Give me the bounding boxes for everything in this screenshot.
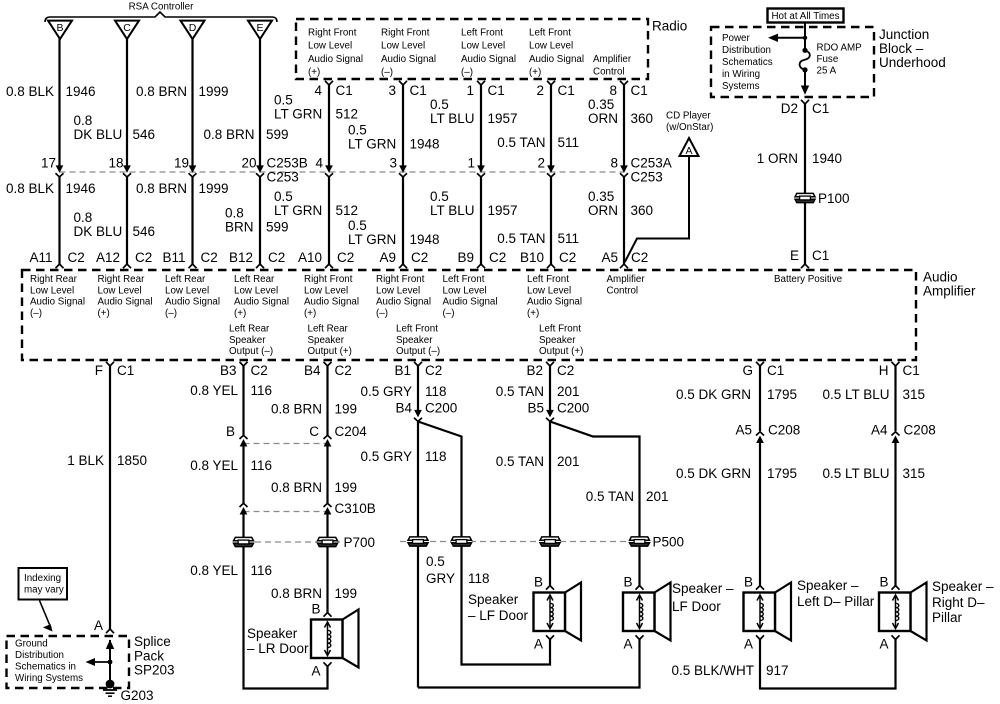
svg-text:(–): (–) xyxy=(376,308,388,319)
grommet P500 c xyxy=(540,537,560,546)
svg-text:– LF Door: – LF Door xyxy=(468,608,529,623)
svg-text:H: H xyxy=(879,363,889,378)
radio pin 8 C1 xyxy=(620,81,628,85)
svg-text:199: 199 xyxy=(335,586,358,601)
pin B2 C2 xyxy=(546,362,554,366)
svg-text:B10: B10 xyxy=(520,250,544,265)
svg-text:Splice: Splice xyxy=(134,634,171,649)
svg-text:(+): (+) xyxy=(527,308,539,319)
grommet P700 right xyxy=(318,537,338,546)
svg-text:C204: C204 xyxy=(335,424,368,439)
svg-text:A: A xyxy=(685,145,692,157)
svg-text:Low Level: Low Level xyxy=(461,41,505,52)
svg-text:118: 118 xyxy=(425,449,447,464)
svg-text:512: 512 xyxy=(336,203,359,218)
pin D2 C1 xyxy=(801,100,809,104)
svg-text:1 BLK: 1 BLK xyxy=(67,453,104,468)
svg-text:D: D xyxy=(189,22,197,34)
pin B4 C2 xyxy=(324,362,332,366)
svg-text:1795: 1795 xyxy=(767,387,797,402)
svg-text:A: A xyxy=(311,663,320,678)
svg-text:B5: B5 xyxy=(527,400,544,415)
svg-text:C200: C200 xyxy=(425,400,457,415)
svg-text:0.5: 0.5 xyxy=(430,97,449,112)
svg-text:118: 118 xyxy=(425,384,447,399)
svg-text:0.8 BLK: 0.8 BLK xyxy=(6,84,54,99)
svg-text:(w/OnStar): (w/OnStar) xyxy=(666,122,713,133)
svg-text:0.35: 0.35 xyxy=(588,189,614,204)
svg-text:511: 511 xyxy=(558,231,580,246)
Hot at All Times box xyxy=(768,9,844,23)
speaker LR Door xyxy=(311,610,359,668)
svg-text:D2: D2 xyxy=(781,101,798,116)
svg-text:1: 1 xyxy=(467,155,475,170)
svg-text:C253B: C253B xyxy=(267,155,308,170)
wire E lower xyxy=(259,177,261,264)
connector C253 pin 18 xyxy=(123,166,131,177)
wire 1 ORN 1940 xyxy=(804,104,806,264)
pin A9 xyxy=(399,264,407,268)
svg-text:Right Front: Right Front xyxy=(376,274,425,285)
fuse RDO AMP 25A xyxy=(802,48,807,53)
svg-text:C2: C2 xyxy=(268,250,285,265)
svg-text:Right D–: Right D– xyxy=(932,595,985,610)
connector C208 pin A5 xyxy=(756,432,764,443)
speaker Left D-Pillar pin A xyxy=(756,635,764,639)
svg-text:LF Door: LF Door xyxy=(672,599,721,614)
svg-text:Junction: Junction xyxy=(879,27,929,42)
svg-text:C: C xyxy=(309,424,319,439)
connector triangle C xyxy=(115,21,139,39)
svg-text:116: 116 xyxy=(251,383,273,398)
wire B lower xyxy=(58,177,60,264)
svg-text:0.5 TAN: 0.5 TAN xyxy=(496,454,544,469)
svg-text:A: A xyxy=(879,636,888,651)
wire B2 0.5 TAN 201 xyxy=(549,366,551,412)
svg-text:546: 546 xyxy=(133,127,156,142)
svg-text:0.35: 0.35 xyxy=(588,97,614,112)
svg-text:Low Level: Low Level xyxy=(304,285,348,296)
wire C lower xyxy=(126,177,128,264)
svg-text:in Wiring: in Wiring xyxy=(722,69,760,80)
svg-text:511: 511 xyxy=(558,135,580,150)
wire B3 mid 0.8 YEL 116 xyxy=(242,444,244,504)
svg-text:Schematics in: Schematics in xyxy=(15,661,76,672)
svg-text:Battery Positive: Battery Positive xyxy=(774,274,843,285)
connector triangle B xyxy=(48,21,72,39)
svg-text:B: B xyxy=(623,574,632,589)
svg-text:Wiring Systems: Wiring Systems xyxy=(15,673,83,684)
wire B2 straight xyxy=(549,422,551,586)
Junction Block box xyxy=(711,27,874,97)
svg-text:C253: C253 xyxy=(631,169,663,184)
wire from hot box xyxy=(804,23,806,51)
svg-text:B3: B3 xyxy=(220,363,237,378)
pin B11 xyxy=(189,264,197,268)
svg-text:(–): (–) xyxy=(30,308,42,319)
svg-text:E: E xyxy=(256,22,263,34)
svg-text:25 A: 25 A xyxy=(817,65,837,76)
connector C253 dashed line xyxy=(60,171,625,173)
radio pin 4 C1 xyxy=(325,81,333,85)
svg-text:Left Rear: Left Rear xyxy=(234,274,275,285)
svg-text:C2: C2 xyxy=(68,250,85,265)
svg-text:Right Front: Right Front xyxy=(304,274,353,285)
svg-text:Audio Signal: Audio Signal xyxy=(527,297,582,308)
svg-text:SP203: SP203 xyxy=(134,662,175,677)
svg-text:Output (+): Output (+) xyxy=(308,346,352,357)
svg-text:LT GRN: LT GRN xyxy=(274,203,322,218)
svg-text:315: 315 xyxy=(903,466,926,481)
arrow to power distribution xyxy=(772,37,805,39)
svg-text:A: A xyxy=(94,618,103,633)
svg-text:18: 18 xyxy=(108,155,123,170)
svg-text:Distribution: Distribution xyxy=(15,650,64,661)
svg-text:C310B: C310B xyxy=(335,501,376,516)
svg-text:GRY: GRY xyxy=(426,571,455,586)
pin B12 xyxy=(256,264,264,268)
svg-text:Low Level: Low Level xyxy=(443,285,487,296)
svg-text:LT GRN: LT GRN xyxy=(348,232,396,247)
svg-text:C1: C1 xyxy=(410,83,427,98)
svg-text:(+): (+) xyxy=(529,67,541,78)
svg-text:0.5: 0.5 xyxy=(274,92,293,107)
junction node dot xyxy=(803,36,807,40)
pin A11 xyxy=(56,264,64,268)
pin B9 xyxy=(477,264,485,268)
grommet P500 a xyxy=(408,537,428,546)
svg-text:0.8 YEL: 0.8 YEL xyxy=(190,458,238,473)
svg-text:C2: C2 xyxy=(337,250,354,265)
svg-text:0.5 TAN: 0.5 TAN xyxy=(586,489,634,504)
svg-text:0.5 BLK/WHT: 0.5 BLK/WHT xyxy=(671,663,754,678)
speaker LR Door pin A xyxy=(324,662,332,666)
svg-text:(–): (–) xyxy=(165,308,177,319)
wire CD player xyxy=(625,156,689,262)
connector C204 dashed line xyxy=(244,443,328,445)
speaker LF Door 2 xyxy=(623,583,671,641)
wire radio 2 upper xyxy=(550,85,552,167)
svg-text:Pillar: Pillar xyxy=(932,610,963,625)
svg-text:A5: A5 xyxy=(735,422,752,437)
grommet P500 d xyxy=(630,537,650,546)
svg-text:Control: Control xyxy=(607,285,639,296)
svg-text:(+): (+) xyxy=(304,308,316,319)
svg-text:B2: B2 xyxy=(526,363,543,378)
svg-text:Low Level: Low Level xyxy=(98,285,142,296)
pin B10 xyxy=(547,264,555,268)
svg-text:1946: 1946 xyxy=(66,181,96,196)
svg-text:Low Level: Low Level xyxy=(234,285,278,296)
svg-text:Low Level: Low Level xyxy=(308,41,352,52)
wire radio 3 upper xyxy=(402,85,404,167)
wire B4 0.8 BRN 199 xyxy=(326,366,328,435)
wire radio 4 lower xyxy=(328,177,330,264)
svg-text:B12: B12 xyxy=(229,250,253,265)
svg-text:0.8 YEL: 0.8 YEL xyxy=(190,563,238,578)
svg-text:C2: C2 xyxy=(411,250,428,265)
svg-text:201: 201 xyxy=(557,454,580,469)
svg-text:Low Level: Low Level xyxy=(165,285,209,296)
svg-text:A11: A11 xyxy=(29,250,52,265)
svg-text:Left Rear: Left Rear xyxy=(229,323,270,334)
svg-text:1946: 1946 xyxy=(66,84,96,99)
svg-text:Underhood: Underhood xyxy=(879,55,946,70)
svg-text:116: 116 xyxy=(251,458,273,473)
radio pin 3 C1 xyxy=(399,81,407,85)
svg-text:(–): (–) xyxy=(461,67,473,78)
grommet P100 xyxy=(795,193,815,202)
svg-text:Fuse: Fuse xyxy=(817,54,839,65)
svg-text:Audio Signal: Audio Signal xyxy=(234,297,289,308)
pin A12 xyxy=(123,264,131,268)
svg-text:C2: C2 xyxy=(559,250,576,265)
radio pin 2 C1 xyxy=(547,81,555,85)
wire radio 1 lower xyxy=(480,177,482,264)
svg-text:0.8: 0.8 xyxy=(74,210,93,225)
svg-text:(–): (–) xyxy=(381,67,393,78)
Indexing may vary box xyxy=(19,568,68,600)
svg-text:199: 199 xyxy=(335,480,358,495)
svg-text:CD Player: CD Player xyxy=(666,110,711,121)
svg-text:0.8 YEL: 0.8 YEL xyxy=(190,383,238,398)
svg-text:0.8 BRN: 0.8 BRN xyxy=(271,586,322,601)
svg-text:0.5 TAN: 0.5 TAN xyxy=(496,384,544,399)
svg-text:A10: A10 xyxy=(298,250,322,265)
splice left arrow xyxy=(89,661,110,663)
svg-text:– LR Door: – LR Door xyxy=(247,641,309,656)
svg-text:A4: A4 xyxy=(871,422,888,437)
svg-text:19: 19 xyxy=(174,155,189,170)
svg-text:Schematics: Schematics xyxy=(722,57,773,68)
svg-text:Audio Signal: Audio Signal xyxy=(443,297,498,308)
svg-text:0.8 BRN: 0.8 BRN xyxy=(271,480,322,495)
connector C200 pin B5 xyxy=(546,410,554,421)
svg-text:ORN: ORN xyxy=(588,111,618,126)
svg-text:LT BLU: LT BLU xyxy=(430,203,475,218)
svg-text:917: 917 xyxy=(766,663,789,678)
svg-text:C1: C1 xyxy=(767,363,784,378)
svg-text:Speaker: Speaker xyxy=(229,335,266,346)
wire B4 mid 0.8 BRN 199 xyxy=(326,444,328,504)
svg-text:Left Rear: Left Rear xyxy=(165,274,206,285)
svg-text:Audio Signal: Audio Signal xyxy=(381,54,436,65)
svg-text:1999: 1999 xyxy=(199,84,229,99)
svg-text:RSA Controller: RSA Controller xyxy=(129,2,195,13)
svg-text:LT GRN: LT GRN xyxy=(274,106,322,121)
svg-text:2: 2 xyxy=(536,83,544,98)
RSA Controller brace xyxy=(45,12,277,22)
svg-text:Speaker: Speaker xyxy=(539,335,576,346)
svg-text:B9: B9 xyxy=(457,250,474,265)
wire radio 3 lower xyxy=(402,177,404,264)
svg-text:A9: A9 xyxy=(379,250,396,265)
svg-text:E: E xyxy=(790,248,799,263)
svg-text:A12: A12 xyxy=(96,250,120,265)
speaker LF Door 2 pin A xyxy=(636,635,644,639)
wire radio 2 lower xyxy=(550,177,552,264)
svg-text:0.8 BLK: 0.8 BLK xyxy=(6,181,54,196)
svg-text:360: 360 xyxy=(631,203,654,218)
svg-text:Audio: Audio xyxy=(923,269,958,284)
connector C204 pin C xyxy=(324,435,332,446)
svg-text:546: 546 xyxy=(133,224,156,239)
svg-text:P100: P100 xyxy=(818,191,850,206)
pin B3 C2 xyxy=(240,362,248,366)
svg-text:0.5 GRY: 0.5 GRY xyxy=(360,384,412,399)
svg-text:Audio Signal: Audio Signal xyxy=(529,54,584,65)
svg-text:Left Front: Left Front xyxy=(443,274,485,285)
svg-text:Amplifier: Amplifier xyxy=(923,283,976,298)
svg-text:0.5 GRY: 0.5 GRY xyxy=(360,449,412,464)
connector C253 pin 3 xyxy=(399,166,407,177)
speaker Right D-Pillar pin A xyxy=(892,635,900,639)
svg-text:0.8 BRN: 0.8 BRN xyxy=(203,127,254,142)
svg-text:RDO AMP: RDO AMP xyxy=(817,42,863,53)
wire B1 branch split xyxy=(417,422,419,688)
svg-text:Low Level: Low Level xyxy=(529,41,573,52)
svg-text:Radio: Radio xyxy=(652,18,687,33)
splice wire xyxy=(109,640,111,684)
svg-text:0.5 TAN: 0.5 TAN xyxy=(497,135,545,150)
svg-text:Hot at All Times: Hot at All Times xyxy=(771,11,839,22)
connector triangle D xyxy=(181,21,205,39)
svg-text:360: 360 xyxy=(631,111,654,126)
wire GRY bottom run xyxy=(418,640,640,688)
svg-text:Audio Signal: Audio Signal xyxy=(461,54,516,65)
svg-text:0.8: 0.8 xyxy=(74,113,93,128)
svg-text:may vary: may vary xyxy=(24,585,64,596)
svg-text:C1: C1 xyxy=(812,101,829,116)
svg-text:4: 4 xyxy=(315,155,323,170)
svg-text:Systems: Systems xyxy=(722,81,760,92)
connector C253 pin 4 xyxy=(325,166,333,177)
svg-text:C208: C208 xyxy=(768,422,800,437)
speaker Right D-Pillar pin B xyxy=(892,586,900,590)
connector C253 pin 20 xyxy=(256,166,264,177)
svg-text:Audio Signal: Audio Signal xyxy=(165,297,220,308)
svg-text:Right Rear: Right Rear xyxy=(98,274,146,285)
svg-text:Control: Control xyxy=(593,67,625,78)
svg-text:C1: C1 xyxy=(903,363,920,378)
svg-text:Speaker: Speaker xyxy=(396,335,433,346)
svg-text:C2: C2 xyxy=(631,250,648,265)
svg-text:Speaker: Speaker xyxy=(468,592,519,607)
svg-text:0.5 DK GRN: 0.5 DK GRN xyxy=(676,387,751,402)
svg-text:Pack: Pack xyxy=(134,648,164,663)
svg-text:0.8 BRN: 0.8 BRN xyxy=(136,84,187,99)
svg-text:C1: C1 xyxy=(631,83,648,98)
speaker Right D-Pillar xyxy=(879,583,927,641)
splice node dot xyxy=(108,660,113,665)
svg-text:0.5: 0.5 xyxy=(430,189,449,204)
svg-text:Low Level: Low Level xyxy=(527,285,571,296)
connector C200 pin B4 xyxy=(414,410,422,421)
svg-text:Amplifier: Amplifier xyxy=(607,274,646,285)
svg-text:0.5 LT BLU: 0.5 LT BLU xyxy=(822,387,889,402)
svg-text:B4: B4 xyxy=(304,363,321,378)
wire B3 lower xyxy=(244,512,328,689)
pin F C1 xyxy=(106,362,114,366)
connector C253 pin 8 xyxy=(620,166,628,177)
svg-text:Left Front: Left Front xyxy=(461,27,503,38)
svg-text:Left Front: Left Front xyxy=(529,27,571,38)
grommet P700 left xyxy=(234,537,254,546)
speaker LR Door pin B xyxy=(324,613,332,617)
svg-text:Indexing: Indexing xyxy=(24,573,61,584)
svg-text:DK BLU: DK BLU xyxy=(74,127,123,142)
wire D upper xyxy=(191,39,193,167)
svg-text:0.5: 0.5 xyxy=(348,218,367,233)
svg-text:C2: C2 xyxy=(557,363,574,378)
svg-text:C: C xyxy=(123,22,131,34)
svg-text:8: 8 xyxy=(610,155,618,170)
svg-text:1 ORN: 1 ORN xyxy=(757,151,798,166)
wire 0.5 BLK/WHT 917 xyxy=(760,640,896,689)
svg-text:599: 599 xyxy=(266,127,289,142)
speaker Left D-Pillar pin B xyxy=(756,586,764,590)
svg-text:Left Front: Left Front xyxy=(396,323,438,334)
svg-text:(+): (+) xyxy=(98,308,110,319)
connector C253 pin 19 xyxy=(189,166,197,177)
radio pin 1 C1 xyxy=(477,81,485,85)
speaker LF Door 1 pin A xyxy=(546,635,554,639)
svg-text:A: A xyxy=(534,636,543,651)
wire radio 1 upper xyxy=(480,85,482,167)
svg-text:A: A xyxy=(623,636,632,651)
svg-text:4: 4 xyxy=(314,83,322,98)
svg-text:B: B xyxy=(534,574,543,589)
connector C310B dashed line xyxy=(244,511,328,513)
connector C253 pin 17 xyxy=(56,166,64,177)
svg-text:Audio Signal: Audio Signal xyxy=(308,54,363,65)
speaker LF Door 1 pin B xyxy=(546,586,554,590)
Audio Amplifier box xyxy=(22,270,916,360)
svg-text:8: 8 xyxy=(609,83,617,98)
connector C253 pin 2 xyxy=(547,166,555,177)
svg-text:0.8 BRN: 0.8 BRN xyxy=(136,181,187,196)
svg-text:Audio Signal: Audio Signal xyxy=(30,297,85,308)
svg-text:C208: C208 xyxy=(904,422,936,437)
svg-text:(+): (+) xyxy=(234,308,246,319)
svg-text:1957: 1957 xyxy=(488,111,518,126)
svg-text:0.5 LT BLU: 0.5 LT BLU xyxy=(822,466,889,481)
svg-text:A5: A5 xyxy=(601,250,618,265)
svg-text:3: 3 xyxy=(388,83,396,98)
svg-text:C2: C2 xyxy=(335,363,352,378)
svg-text:C2: C2 xyxy=(201,250,218,265)
svg-text:Speaker –: Speaker – xyxy=(932,579,994,594)
connector C310B right xyxy=(324,503,332,514)
connector C253 pin 1 xyxy=(477,166,485,177)
wire radio 4 upper xyxy=(328,85,330,167)
svg-text:0.5: 0.5 xyxy=(426,554,445,569)
svg-text:512: 512 xyxy=(336,106,359,121)
pin A splice pack xyxy=(106,629,114,633)
svg-text:B1: B1 xyxy=(394,363,411,378)
svg-text:G203: G203 xyxy=(121,688,154,703)
wire B3 0.8 YEL 116 xyxy=(242,366,244,435)
svg-text:Ground: Ground xyxy=(15,638,48,649)
wire radio 8 upper xyxy=(623,85,625,167)
speaker LF Door 2 pin B xyxy=(636,586,644,590)
pin G C1 xyxy=(756,362,764,366)
svg-text:1850: 1850 xyxy=(117,453,147,468)
svg-text:C2: C2 xyxy=(425,363,442,378)
svg-text:17: 17 xyxy=(41,155,56,170)
wire C upper xyxy=(126,39,128,167)
svg-text:Speaker –: Speaker – xyxy=(672,581,734,596)
